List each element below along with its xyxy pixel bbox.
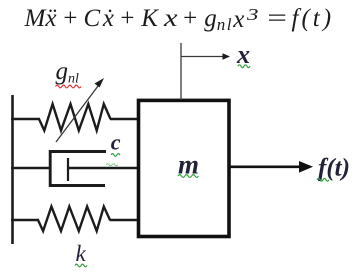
damper piston rod <box>68 167 139 170</box>
svg-text:x: x <box>236 40 250 69</box>
wire damper-branch <box>11 167 50 170</box>
squiggle green under m <box>178 175 198 178</box>
wire top-branch <box>11 118 40 121</box>
wall <box>11 95 14 244</box>
wire bottom-branch <box>11 219 39 222</box>
svg-text:gnl: gnl <box>56 58 80 87</box>
squiggle green under k <box>75 264 87 267</box>
wire spring-to-mass top <box>110 118 139 121</box>
wire spring-to-mass bottom <box>110 219 140 222</box>
spring gnl <box>39 104 111 131</box>
nonlinearity arrow through spring <box>56 78 104 142</box>
coordinate x arrow <box>181 53 230 59</box>
coordinate axis vertical line <box>180 43 182 100</box>
squiggle red under gnl <box>56 85 82 88</box>
spring k <box>38 207 110 232</box>
equation Mẍ + Cẋ + Kx + gnl x^3 = f(t) <box>0 0 357 40</box>
damper piston plate <box>67 158 69 181</box>
force f(t) arrow <box>230 161 313 173</box>
svg-text:k: k <box>76 241 87 266</box>
squiggle green under f(t) <box>317 178 329 181</box>
mass m block <box>139 100 230 236</box>
squiggle green on rod <box>106 164 118 166</box>
squiggle green under x <box>238 65 250 68</box>
damper C cylinder <box>50 152 106 186</box>
squiggle green under c <box>111 154 120 157</box>
svg-text:c: c <box>111 130 121 155</box>
svg-text:f(t): f(t) <box>318 155 350 182</box>
